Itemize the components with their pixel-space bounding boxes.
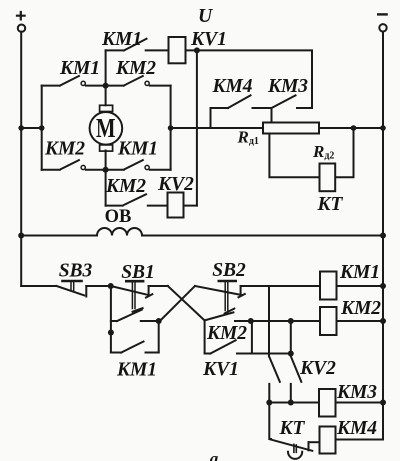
motor M1 armature — [90, 50, 123, 205]
contact KM1 (bridge top-left) — [42, 76, 106, 86]
wire KM3 coil row — [269, 402, 319, 404]
svg-text:Rд1: Rд1 — [237, 128, 259, 148]
svg-text:U: U — [198, 6, 213, 27]
wire right supply vertical — [382, 32, 384, 440]
contact KM1 (self-hold aux) — [111, 342, 159, 353]
svg-text:SB1: SB1 — [121, 262, 155, 283]
relay coil KV2 — [168, 193, 184, 218]
contact KT (NC, time delay) — [270, 439, 320, 459]
svg-text:KT: KT — [279, 418, 306, 439]
wire KV2 right — [184, 205, 197, 207]
svg-text:KV1: KV1 — [202, 359, 239, 380]
relay coil KV1 — [169, 37, 186, 63]
svg-text:KM4: KM4 — [211, 76, 252, 97]
svg-text:а: а — [210, 449, 219, 461]
contactor coil KM2 — [320, 307, 337, 335]
contact KM4 — [211, 95, 272, 128]
wire armature rail — [21, 127, 383, 129]
svg-text:KM3: KM3 — [336, 382, 377, 403]
svg-text:KM2: KM2 — [44, 139, 85, 160]
node SB2 lower right — [248, 318, 254, 324]
svg-text:SB2: SB2 — [212, 260, 246, 281]
svg-text:Rд2: Rд2 — [312, 142, 334, 162]
svg-text:KM2: KM2 — [115, 58, 156, 79]
pushbutton SB3 (stop, NC) — [57, 281, 111, 297]
svg-text:KM1: KM1 — [101, 29, 142, 50]
resistor Rd1 — [263, 123, 319, 134]
pushbutton SB2 upper contact (NC) — [195, 281, 320, 313]
svg-text:KM3: KM3 — [267, 76, 308, 97]
node armature rail junctions — [18, 125, 385, 131]
svg-text:KM1: KM1 — [339, 262, 380, 283]
contactor coil KM3 — [319, 389, 336, 417]
plus terminal — [17, 12, 25, 32]
pushbutton SB1 upper contact (NC) — [111, 281, 168, 312]
svg-text:KV2: KV2 — [299, 358, 336, 379]
contactor coil KM4 — [320, 427, 336, 454]
contact KM2 (to KV2 coil) — [106, 194, 168, 205]
node OB rail left — [18, 233, 24, 239]
wire cross diagonal 2 — [160, 286, 195, 321]
svg-text:KM1: KM1 — [116, 360, 157, 381]
contact KM3 — [272, 95, 313, 122]
contact KM1 (to KV1 coil) — [106, 39, 169, 51]
wire control rail left — [21, 285, 56, 287]
wire KV coils common vertical — [196, 50, 198, 205]
pushbutton SB2 lower contact (NO) — [205, 312, 320, 353]
wire to KM1 aux — [158, 321, 160, 353]
svg-text:KV1: KV1 — [190, 29, 227, 50]
svg-text:KM1: KM1 — [59, 58, 100, 79]
contact KM2 (self-hold aux) — [205, 321, 291, 354]
node KM2 row mid — [288, 318, 294, 324]
field winding OB — [21, 228, 383, 235]
svg-text:KT: KT — [317, 194, 344, 215]
wire KT branch down — [269, 403, 271, 440]
node OB rail right — [380, 233, 386, 239]
wire node A down vertical — [110, 286, 112, 353]
node bridge bottom center — [103, 167, 109, 173]
contact KV2 (vertical NO) — [291, 356, 302, 402]
wire KM1 coil to rail — [337, 285, 384, 287]
contactor coil KM1 — [320, 272, 337, 300]
node on vertical — [108, 330, 114, 336]
svg-text:SB3: SB3 — [59, 261, 93, 282]
wire cross diagonal 1 — [168, 286, 205, 320]
node KM2 aux right — [288, 351, 294, 357]
svg-text:KM1: KM1 — [117, 139, 158, 160]
minus terminal — [378, 14, 386, 31]
svg-text:KM4: KM4 — [336, 418, 377, 439]
pushbutton SB1 lower contact (NO) — [111, 310, 159, 321]
svg-text:ОВ: ОВ — [105, 207, 132, 227]
node KV1 right — [194, 47, 200, 53]
wire KM3 coil to rail — [336, 402, 384, 404]
svg-text:KV2: KV2 — [157, 174, 194, 195]
wire bridge left vertical — [41, 86, 43, 170]
contact KM2 (bridge bottom-left) — [42, 160, 106, 170]
svg-text:KM2: KM2 — [206, 323, 247, 344]
svg-text:KM2: KM2 — [340, 298, 381, 319]
wire KM4 coil to rail — [336, 439, 384, 441]
svg-text:M: M — [96, 113, 116, 143]
node bridge top center — [103, 83, 109, 89]
node A (after SB3) — [108, 283, 114, 289]
node SB1 lower right — [156, 318, 162, 324]
wire left supply vertical — [20, 32, 22, 286]
svg-text:KM2: KM2 — [105, 176, 146, 197]
resistor Rd2 / relay coil KT branch — [269, 128, 353, 191]
contact KM1 (bridge bottom-right) — [106, 160, 171, 170]
wire KM2 coil to rail — [337, 320, 384, 322]
contact KV1 (vertical NO) — [269, 286, 280, 403]
wire bridge right vertical — [170, 86, 172, 170]
wire KV1 to node — [186, 50, 313, 108]
contact KM2 (bridge top-right) — [106, 76, 171, 86]
